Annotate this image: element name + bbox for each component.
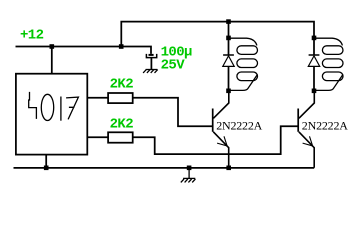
node junction V+ 4017 — [50, 44, 55, 49]
wire top loop V+ to relays — [121, 22, 314, 47]
diode D2 — [308, 38, 319, 91]
wire ground rail — [14, 167, 315, 169]
node junction relay2 top — [312, 36, 317, 41]
node junction gnd Q1 emitter — [226, 166, 231, 171]
node junction relay2 bottom — [312, 89, 317, 94]
svg-text:2N2222A: 2N2222A — [302, 118, 348, 132]
relay coil L2 — [314, 38, 343, 90]
svg-text:2K2: 2K2 — [110, 117, 134, 133]
ground symbol main rail — [181, 168, 196, 183]
node junction gnd symbol — [187, 166, 192, 171]
wire R1 left lead — [87, 97, 108, 99]
wire relay1 top lead — [228, 22, 230, 38]
capacitor C1 bottom lead — [150, 58, 152, 70]
svg-text:2N2222A: 2N2222A — [216, 118, 262, 132]
capacitor C1 cup — [146, 54, 156, 58]
ground symbol under C1 — [143, 70, 158, 73]
svg-text:+12: +12 — [20, 28, 44, 44]
relay coil L1 — [229, 38, 258, 90]
wire +12 rail — [16, 47, 152, 54]
resistor R2 body — [108, 132, 133, 142]
wire R1 to Q1 base — [133, 98, 213, 126]
wire R2 to Q2 base — [133, 126, 298, 154]
node junction V+ cap branch — [119, 44, 124, 49]
svg-text:2K2: 2K2 — [110, 77, 134, 93]
node junction relay1 top — [226, 36, 231, 41]
transistor Q2 2N2222A — [298, 91, 314, 168]
node junction top wire relay1 — [226, 19, 231, 24]
svg-text:25V: 25V — [161, 58, 186, 74]
transistor Q1 2N2222A — [213, 91, 229, 168]
capacitor C1 100u plate — [149, 54, 154, 56]
wire 4017 Vcc pin — [51, 47, 53, 74]
wire 4017 ground pin — [45, 155, 47, 168]
node junction gnd 4017 — [44, 166, 49, 171]
wire R2 left lead — [87, 136, 108, 138]
IC U1 label 4017 glyphs — [29, 92, 79, 121]
node junction relay1 bottom — [226, 89, 231, 94]
resistor R1 body — [108, 93, 133, 103]
IC U1 4017 box — [16, 74, 87, 155]
diode D1 — [223, 38, 234, 91]
